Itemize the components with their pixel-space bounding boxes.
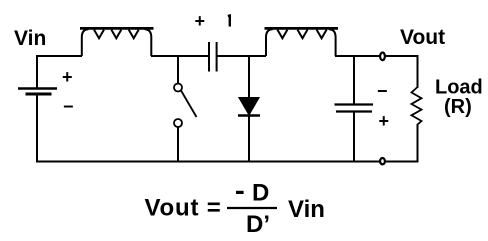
- capacitor C1 minus mark: [228, 16, 230, 27]
- capacitor C2 output: [335, 56, 374, 162]
- resistor R load: [412, 87, 422, 162]
- output terminal top: [380, 53, 385, 61]
- battery source Vin: [18, 55, 57, 162]
- inductor L2: [265, 28, 339, 56]
- wire top-right rail: [335, 55, 419, 57]
- formula Vout = -D/D' Vin: [145, 180, 325, 239]
- wire middle top rail (right of capacitor): [217, 55, 266, 57]
- svg-text:+: +: [195, 11, 206, 31]
- output terminal bottom: [380, 158, 385, 164]
- svg-text:−: −: [377, 81, 388, 101]
- inductor L1: [80, 28, 154, 56]
- svg-text:Vout: Vout: [400, 26, 445, 49]
- svg-text:Vin: Vin: [14, 27, 46, 50]
- svg-text:(R): (R): [444, 96, 472, 118]
- switch S1: [174, 55, 197, 162]
- wire bottom rail: [36, 161, 419, 163]
- svg-text:D’: D’: [246, 211, 270, 238]
- wire middle top rail (left of capacitor): [151, 55, 209, 57]
- svg-text:Vout =: Vout =: [145, 195, 222, 222]
- svg-text:Vin: Vin: [288, 196, 325, 223]
- capacitor C1: [209, 42, 217, 72]
- svg-text:D: D: [252, 180, 269, 207]
- svg-text:+: +: [62, 67, 73, 87]
- wire load right side down: [417, 55, 419, 88]
- diode D1: [238, 55, 260, 162]
- wire top-left rail: [37, 55, 82, 57]
- svg-text:−: −: [63, 97, 74, 117]
- svg-text:+: +: [379, 111, 390, 131]
